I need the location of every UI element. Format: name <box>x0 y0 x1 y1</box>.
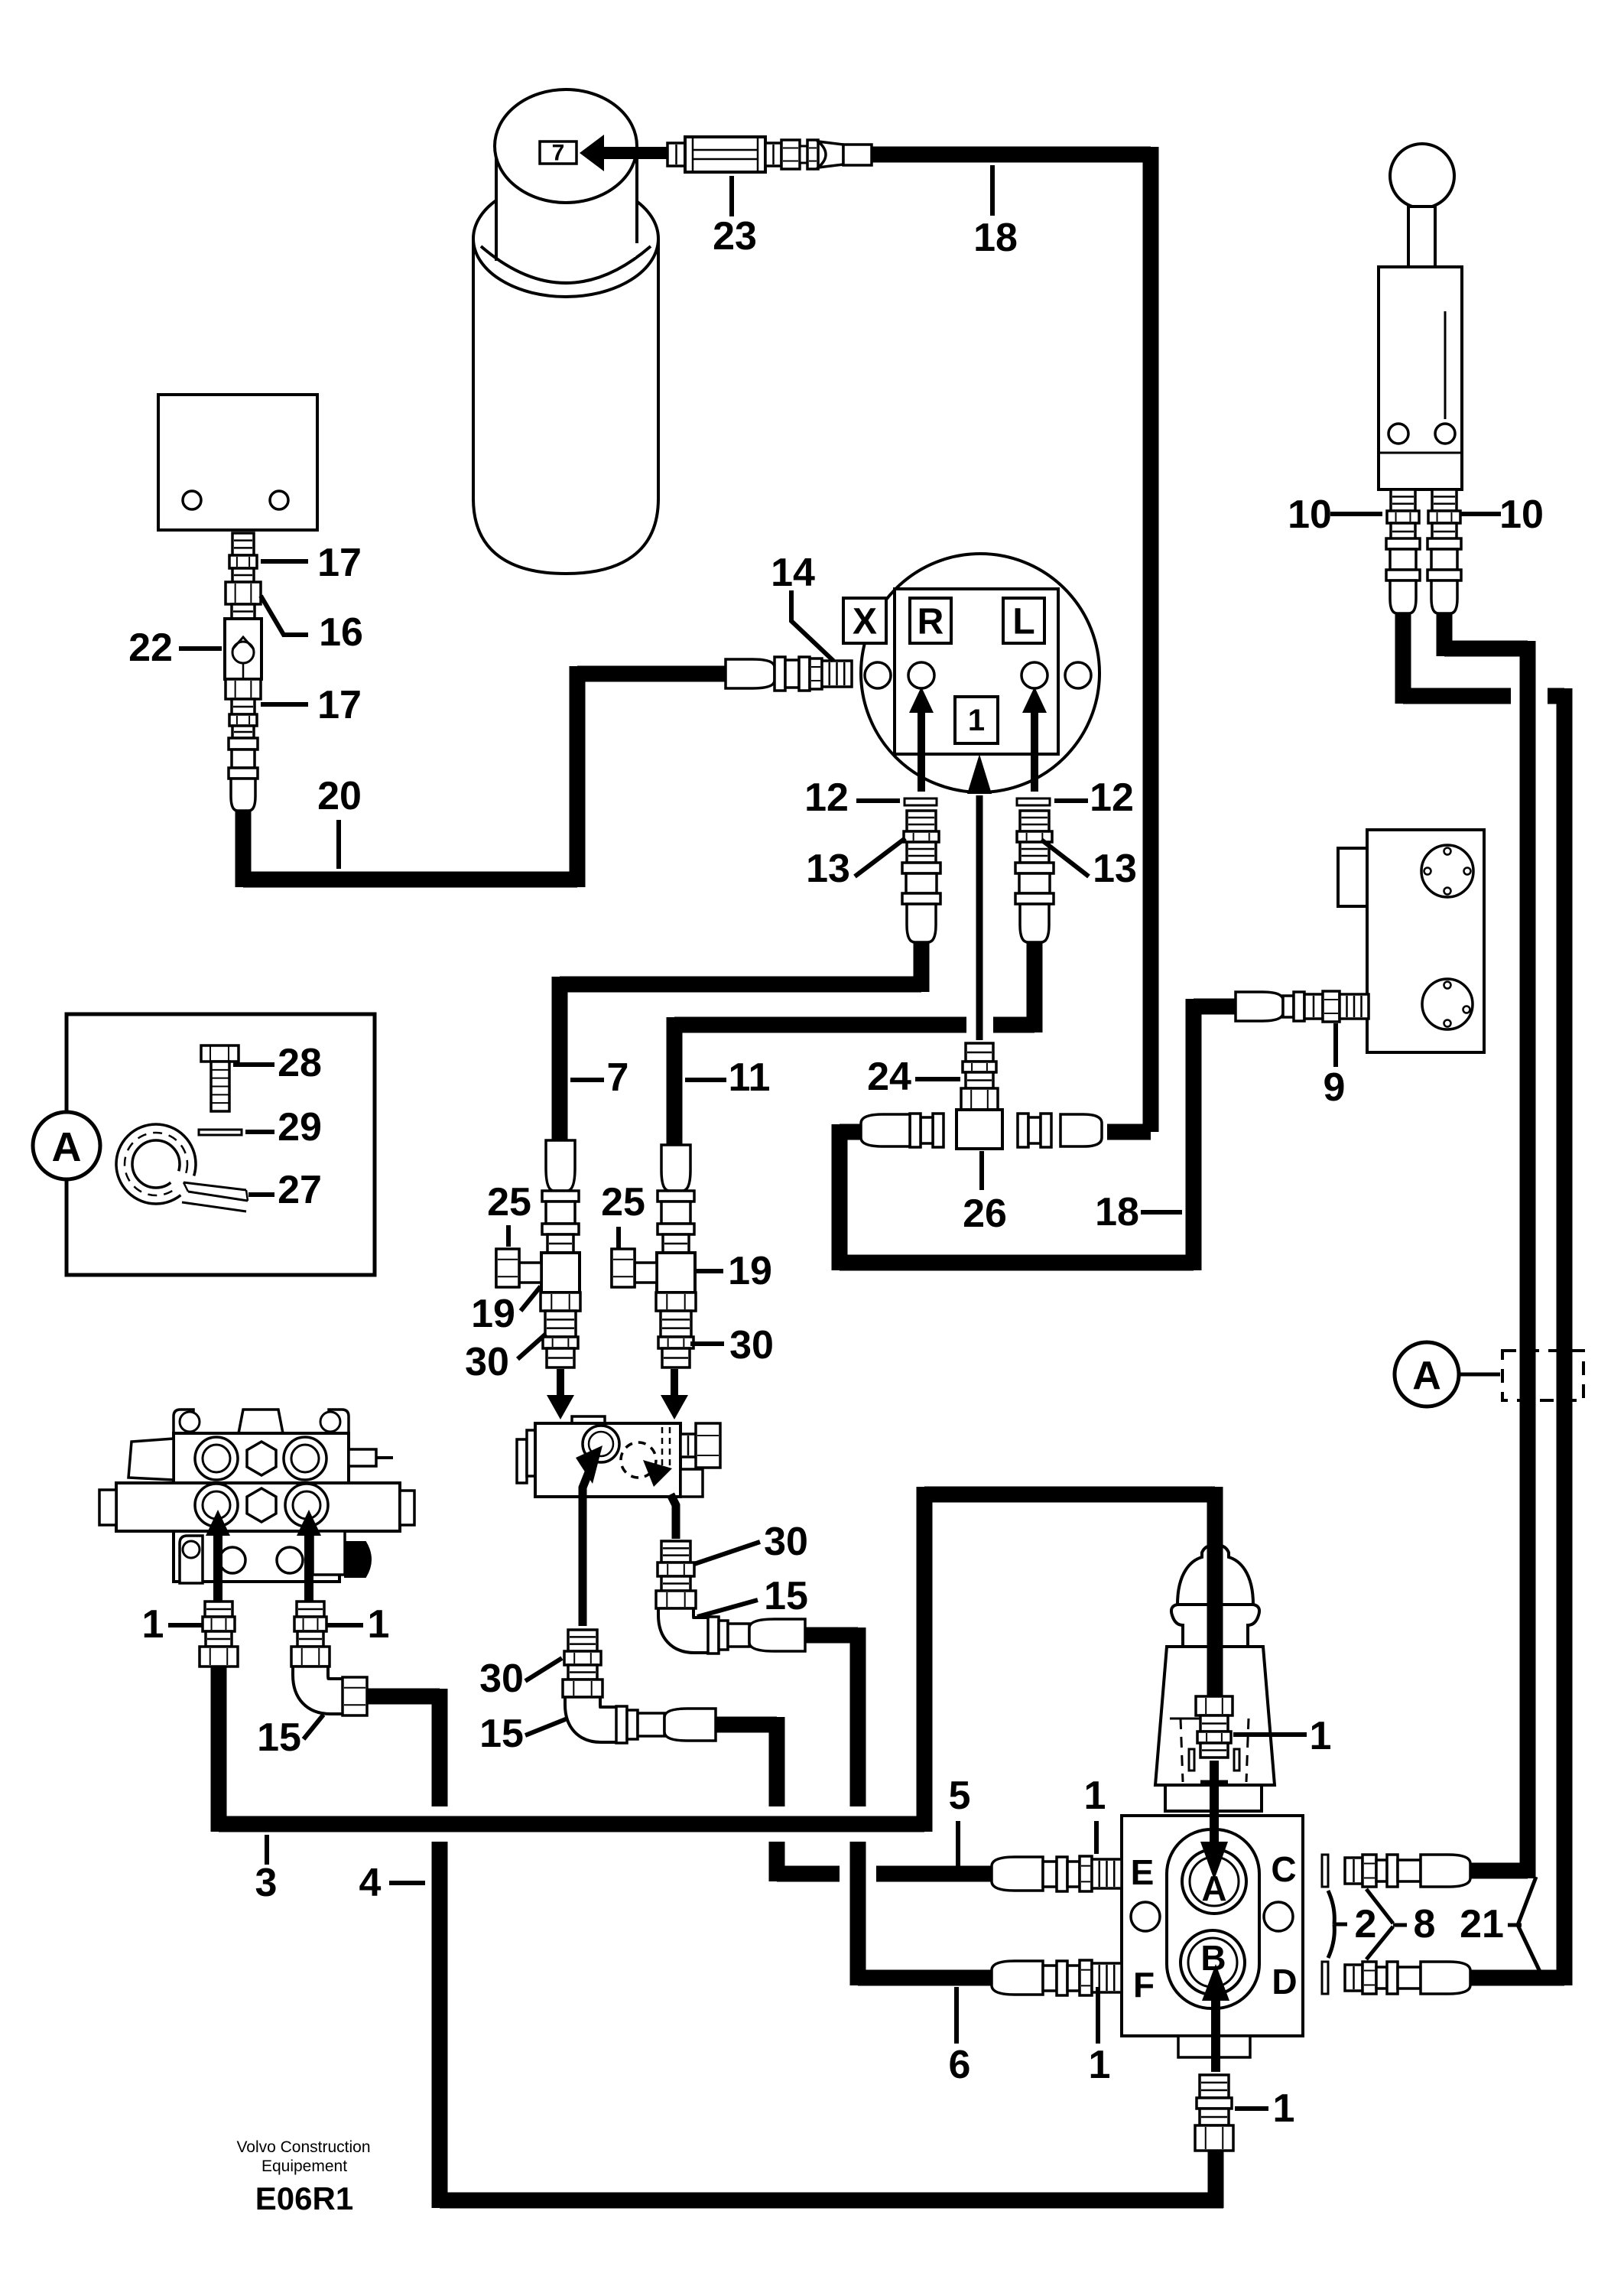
label 15 bottom <box>257 1715 323 1760</box>
fitting 9 <box>1236 991 1369 1022</box>
port letters <box>1131 1849 1298 2005</box>
label 24 <box>867 1055 960 1099</box>
label 18 lower <box>1095 1190 1182 1234</box>
label 15 upper middle <box>697 1574 808 1618</box>
arrow into port 1 (from tee 24) <box>967 754 992 1040</box>
label 12 left <box>804 776 900 820</box>
hose from right port 10 (to C, hose 8) <box>1444 608 1528 1878</box>
svg-text:1: 1 <box>968 704 985 737</box>
hose to 11 (from right 13) <box>674 939 1034 1149</box>
svg-text:25: 25 <box>487 1180 531 1224</box>
svg-text:13: 13 <box>1093 847 1137 891</box>
arrow into right port <box>297 1510 321 1682</box>
elbow 15 lower middle <box>564 1697 716 1743</box>
fitting 10 right <box>1427 489 1461 613</box>
label 2 <box>1328 1891 1376 1958</box>
port label box 7 <box>540 141 577 166</box>
arrow into shuttle port left <box>576 1445 603 1626</box>
svg-text:E: E <box>1131 1852 1155 1892</box>
svg-text:20: 20 <box>317 774 362 818</box>
port circles <box>865 662 1091 688</box>
joystick lever <box>1379 144 1462 489</box>
label 4 <box>359 1861 425 1905</box>
svg-text:15: 15 <box>764 1574 808 1618</box>
svg-text:L: L <box>1012 602 1034 642</box>
svg-text:3: 3 <box>255 1861 278 1905</box>
arrow into pilot valve left <box>547 1369 574 1419</box>
pilot shuttle valve <box>517 1416 720 1497</box>
svg-text:19: 19 <box>471 1292 515 1336</box>
washer 2 top <box>1322 1855 1328 1887</box>
svg-text:1: 1 <box>142 1602 164 1647</box>
svg-text:30: 30 <box>479 1657 524 1701</box>
fitting 8 on port C <box>1345 1855 1470 1887</box>
label 23 <box>713 176 757 259</box>
arrow into 7 <box>580 135 667 171</box>
cap nut 25 right <box>612 1249 635 1287</box>
fitting 1 on port E <box>992 1856 1122 1891</box>
label 1 left <box>142 1602 202 1647</box>
inset detail box <box>67 1014 375 1275</box>
check valve 22 <box>225 619 261 679</box>
pilot block 9 <box>1338 830 1484 1052</box>
svg-text:11: 11 <box>729 1055 771 1100</box>
svg-text:13: 13 <box>806 847 850 891</box>
svg-text:26: 26 <box>963 1192 1007 1236</box>
label 29 <box>245 1105 322 1150</box>
arrow into A <box>1200 1761 1228 1880</box>
svg-text:7: 7 <box>607 1055 629 1100</box>
svg-text:30: 30 <box>465 1340 509 1384</box>
arrow into B <box>1202 1964 1229 2072</box>
label 8 <box>1366 1889 1435 1959</box>
relief valve body <box>1122 1545 1303 2057</box>
svg-text:30: 30 <box>729 1323 774 1367</box>
fitting 24 (tee stud) <box>961 1043 998 1110</box>
svg-text:1: 1 <box>1084 1774 1106 1818</box>
label 13 left <box>806 838 905 891</box>
balloon A right <box>1395 1342 1500 1406</box>
label 28 <box>233 1041 322 1085</box>
arrow into pilot valve right <box>661 1369 688 1419</box>
svg-text:18: 18 <box>973 216 1018 260</box>
fitting 16 <box>226 582 261 619</box>
svg-text:22: 22 <box>128 626 173 670</box>
hose 5 <box>716 1717 994 1881</box>
hose 3 <box>219 1487 1215 1832</box>
label 9 <box>1324 1023 1346 1110</box>
svg-text:29: 29 <box>278 1105 322 1150</box>
label 26 <box>963 1151 1007 1236</box>
label 21 <box>1460 1877 1541 1973</box>
tee fitting 19 left <box>496 1140 580 1293</box>
arrow into R port <box>909 687 934 792</box>
svg-text:15: 15 <box>257 1715 301 1760</box>
label 30 right <box>690 1323 774 1367</box>
pin 29 <box>199 1130 242 1135</box>
label 12 right <box>1054 776 1134 820</box>
fitting 13 left <box>902 811 940 942</box>
svg-text:F: F <box>1133 1965 1155 2005</box>
svg-text:A: A <box>52 1124 82 1170</box>
fitting 14 <box>726 657 852 691</box>
fitting 30 lower middle <box>563 1630 603 1697</box>
svg-text:15: 15 <box>479 1712 524 1756</box>
svg-text:1: 1 <box>1273 2086 1295 2131</box>
svg-text:24: 24 <box>867 1055 911 1099</box>
svg-text:C: C <box>1271 1849 1296 1889</box>
svg-text:4: 4 <box>359 1861 382 1905</box>
fitting 8 on port D <box>1345 1962 1470 1994</box>
port box X <box>843 598 886 643</box>
svg-text:10: 10 <box>1288 493 1332 537</box>
svg-text:12: 12 <box>1090 776 1134 820</box>
label 1 below F <box>1089 1987 1111 2087</box>
svg-text:16: 16 <box>319 610 363 655</box>
svg-text:X: X <box>853 602 877 642</box>
fitting 17 upper <box>229 533 257 582</box>
label 20 <box>317 774 362 869</box>
bolt 28 <box>201 1045 239 1111</box>
label 13 right <box>1041 840 1137 891</box>
swing motor port face <box>861 554 1099 792</box>
svg-text:6: 6 <box>949 2043 971 2087</box>
label 17 upper <box>261 541 362 585</box>
arrow into shuttle port right <box>643 1460 676 1539</box>
washer 12 left <box>905 798 937 805</box>
svg-text:1: 1 <box>1310 1714 1332 1758</box>
svg-text:5: 5 <box>949 1774 971 1818</box>
label 1 above E <box>1084 1774 1106 1854</box>
svg-text:19: 19 <box>728 1249 772 1293</box>
fitting 30 right <box>656 1293 696 1367</box>
svg-text:17: 17 <box>317 683 362 727</box>
hose to 7 (from left 13) <box>560 939 921 1141</box>
svg-text:2: 2 <box>1355 1902 1377 1946</box>
hose 20 <box>243 666 728 887</box>
fitting 1 top of valve <box>1196 1696 1233 1758</box>
label 16 <box>261 596 363 655</box>
control valve block <box>99 1410 414 1583</box>
label 5 <box>949 1774 971 1866</box>
svg-text:R: R <box>918 602 944 642</box>
label 10 left <box>1288 493 1382 537</box>
fitting 1 on port F <box>992 1960 1122 1995</box>
svg-text:28: 28 <box>278 1041 322 1085</box>
svg-text:1: 1 <box>368 1602 390 1647</box>
fitting 30 left <box>541 1293 580 1367</box>
fitting 17 lower <box>226 679 261 811</box>
label 18 <box>973 165 1018 260</box>
svg-text:14: 14 <box>771 551 815 595</box>
fitting 13 right <box>1015 811 1054 942</box>
fitting 1 bottom of valve <box>1195 2075 1233 2151</box>
svg-text:23: 23 <box>713 214 757 259</box>
port box R <box>910 598 951 643</box>
hose from left port 10 (to D, hose 21) <box>1403 608 1564 1985</box>
fitting 30 upper middle <box>656 1541 696 1608</box>
svg-text:Volvo Construction: Volvo Construction <box>236 2138 370 2156</box>
svg-text:Equipement: Equipement <box>261 2158 347 2175</box>
label 17 lower <box>261 683 362 727</box>
label 19 left <box>471 1286 541 1336</box>
hose 6 <box>805 1628 994 1985</box>
svg-text:E06R1: E06R1 <box>255 2180 353 2216</box>
svg-text:27: 27 <box>278 1168 322 1212</box>
tee 26 <box>861 1110 1102 1149</box>
svg-text:18: 18 <box>1095 1190 1139 1234</box>
svg-text:8: 8 <box>1414 1902 1436 1946</box>
label 27 <box>248 1168 322 1212</box>
arrow into left port <box>206 1510 230 1682</box>
tee fitting 19 right <box>612 1145 695 1293</box>
label 30 left <box>465 1334 546 1384</box>
label 11 <box>685 1055 770 1100</box>
label 22 <box>128 626 222 670</box>
check valve 23 <box>667 137 872 172</box>
clamp detail A (dashed) <box>1502 1351 1583 1400</box>
label 30 lower middle <box>479 1657 562 1701</box>
svg-text:30: 30 <box>764 1520 808 1564</box>
svg-text:A: A <box>1412 1354 1441 1398</box>
fitting 10 left <box>1386 489 1420 613</box>
label 7 <box>570 1055 628 1100</box>
label 15 lower middle <box>479 1712 567 1756</box>
fitting 1 left <box>200 1602 238 1667</box>
label 14 <box>771 551 833 661</box>
washer 12 right <box>1017 798 1050 805</box>
label 6 <box>949 1987 971 2087</box>
accumulator cylinder <box>473 89 658 574</box>
cap nut 25 left <box>496 1249 519 1287</box>
label 1 right <box>326 1602 389 1647</box>
label 1 bottom fitting <box>1235 2086 1294 2131</box>
hose 18 lower (tee 26 to valve 9) <box>840 999 1242 1270</box>
elbow 15 upper middle <box>657 1608 805 1654</box>
label 19 right <box>696 1249 772 1293</box>
port label box 1 <box>955 697 998 743</box>
hose 4 <box>365 1689 1223 2208</box>
label 3 <box>255 1835 278 1905</box>
arrow into L port <box>1022 687 1047 792</box>
washer 2 bottom <box>1322 1962 1328 1994</box>
balloon A <box>33 1112 100 1179</box>
svg-text:D: D <box>1272 1962 1297 2001</box>
hose 18 <box>864 147 1151 1132</box>
mounting bracket plate <box>158 395 317 530</box>
label 10 right <box>1461 493 1544 537</box>
clamp 27 <box>116 1124 248 1211</box>
fitting 1 right + elbow 15 <box>291 1602 367 1715</box>
svg-text:7: 7 <box>552 141 565 166</box>
svg-text:25: 25 <box>601 1180 645 1224</box>
label 30 upper middle <box>694 1520 808 1564</box>
footer text <box>236 2138 370 2216</box>
label 25 right <box>601 1180 645 1248</box>
svg-text:10: 10 <box>1499 493 1544 537</box>
svg-text:12: 12 <box>804 776 849 820</box>
port box L <box>1003 598 1044 643</box>
svg-text:17: 17 <box>317 541 362 585</box>
svg-text:9: 9 <box>1324 1065 1346 1110</box>
label 1 top fitting <box>1233 1714 1331 1758</box>
svg-text:21: 21 <box>1460 1902 1504 1946</box>
label 25 left <box>487 1180 531 1247</box>
svg-text:1: 1 <box>1089 2043 1111 2087</box>
